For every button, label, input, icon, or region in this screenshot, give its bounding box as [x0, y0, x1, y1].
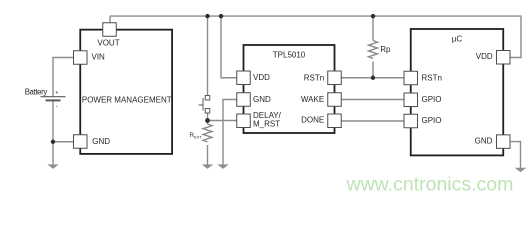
- svg-text:WAKE: WAKE: [301, 95, 324, 104]
- svg-text:VDD: VDD: [476, 52, 493, 61]
- svg-text:VIN: VIN: [92, 53, 106, 62]
- svg-text:RSTn: RSTn: [422, 73, 442, 82]
- svg-text:M_RST: M_RST: [253, 120, 280, 129]
- svg-text:GND: GND: [475, 137, 493, 146]
- svg-text:GPIO: GPIO: [422, 116, 442, 125]
- svg-text:RSTn: RSTn: [304, 73, 324, 82]
- svg-text:VOUT: VOUT: [97, 39, 119, 48]
- svg-text:+: +: [55, 90, 58, 96]
- svg-text:µC: µC: [452, 34, 463, 43]
- svg-text:GPIO: GPIO: [422, 95, 442, 104]
- svg-text:www.cntronics.com: www.cntronics.com: [346, 174, 514, 196]
- svg-text:-: -: [56, 104, 58, 110]
- svg-text:POWER MANAGEMENT: POWER MANAGEMENT: [82, 95, 172, 104]
- svg-text:TPL5010: TPL5010: [273, 51, 306, 60]
- svg-text:REXT: REXT: [190, 133, 203, 140]
- svg-text:Battery: Battery: [25, 88, 48, 97]
- svg-text:DONE: DONE: [301, 115, 324, 124]
- svg-text:GND: GND: [253, 95, 271, 104]
- svg-text:GND: GND: [92, 137, 110, 146]
- svg-text:VDD: VDD: [253, 73, 270, 82]
- svg-text:Rp: Rp: [380, 45, 391, 54]
